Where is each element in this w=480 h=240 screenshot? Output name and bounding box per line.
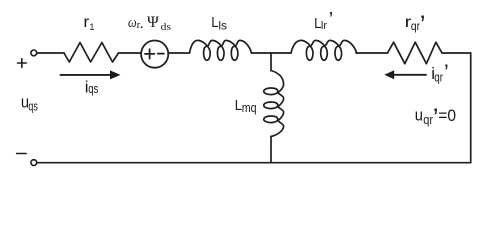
svg-text:1: 1 — [89, 22, 94, 33]
wire: right vertical side — [470, 53, 472, 163]
wire: input terminal to resistor r1 — [37, 52, 64, 54]
inductor L_lr' — [291, 40, 357, 60]
wire: L_lr to resistor r_qr — [356, 52, 388, 54]
svg-text:qs: qs — [88, 82, 98, 96]
input terminal circle (top-left) — [31, 50, 37, 56]
source polarity plus (+) — [145, 49, 154, 58]
svg-text:’: ’ — [329, 9, 333, 31]
output terminal circle (bottom-left) — [31, 160, 37, 166]
wire: node A down to L_mq — [270, 53, 272, 71]
svg-text:Ψ: Ψ — [147, 14, 159, 31]
dependent source U1 (speed-voltage source circle) — [141, 41, 168, 68]
wire: node A to L_lr — [271, 52, 291, 54]
current arrow i_qr' head — [384, 70, 394, 79]
wire: L_mq to bottom wire — [270, 137, 272, 163]
terminal plus sign (+) — [18, 59, 27, 68]
resistor r1 — [64, 43, 119, 63]
svg-text:.: . — [140, 16, 144, 32]
current arrow i_qr' shaft — [394, 74, 427, 76]
svg-text:’: ’ — [444, 60, 449, 85]
svg-text:qs: qs — [28, 99, 37, 113]
wire: L_ls to node A — [252, 52, 272, 54]
svg-text:qr: qr — [411, 19, 420, 33]
svg-text:lr: lr — [321, 20, 327, 32]
svg-text:u: u — [415, 106, 423, 125]
svg-text:ds: ds — [161, 21, 171, 33]
wire: source to inductor L_ls — [168, 52, 189, 54]
svg-text:ω: ω — [128, 15, 137, 31]
inductor L_mq (magnetizing, vertical) — [264, 71, 284, 137]
svg-text:qr: qr — [434, 71, 443, 85]
current arrow i_qs shaft — [60, 74, 111, 76]
svg-text:’: ’ — [420, 9, 426, 39]
current arrow i_qs head — [110, 70, 121, 79]
wire: r1 to dependent source — [119, 52, 142, 54]
svg-text:ls: ls — [218, 19, 227, 33]
inductor L_ls — [190, 40, 252, 60]
wire: bottom horizontal — [37, 162, 471, 164]
terminal minus sign (-) — [17, 153, 27, 155]
svg-text:=0: =0 — [438, 106, 456, 125]
resistor r_qr' — [388, 42, 443, 64]
source polarity minus (-) — [158, 53, 164, 55]
svg-text:mq: mq — [242, 101, 257, 115]
wire: r_qr to top-right corner — [442, 52, 471, 54]
